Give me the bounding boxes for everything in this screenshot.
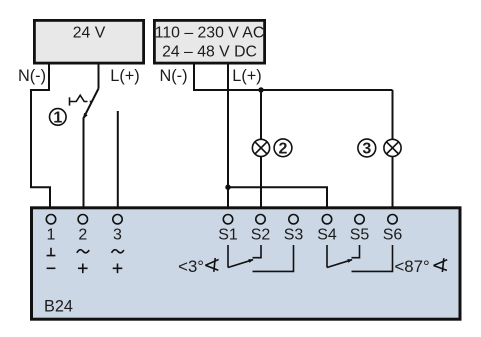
svg-text:S1: S1 bbox=[218, 227, 238, 244]
svg-text:3: 3 bbox=[113, 227, 122, 244]
svg-text:1: 1 bbox=[53, 110, 62, 127]
svg-text:24 – 48 V DC: 24 – 48 V DC bbox=[162, 43, 257, 60]
svg-text:B24: B24 bbox=[44, 298, 73, 316]
svg-text:<3°: <3° bbox=[178, 257, 204, 276]
svg-text:L(+): L(+) bbox=[110, 67, 139, 85]
svg-text:S3: S3 bbox=[284, 227, 304, 244]
svg-text:N(-): N(-) bbox=[159, 67, 187, 85]
svg-text:N(-): N(-) bbox=[18, 67, 46, 85]
svg-text:110 – 230 V AC: 110 – 230 V AC bbox=[155, 25, 265, 42]
svg-text:2: 2 bbox=[279, 141, 288, 158]
svg-text:S2: S2 bbox=[251, 227, 271, 244]
svg-text:<87°: <87° bbox=[395, 257, 430, 276]
svg-text:2: 2 bbox=[78, 227, 87, 244]
svg-text:S5: S5 bbox=[350, 227, 370, 244]
svg-text:3: 3 bbox=[362, 141, 371, 158]
svg-text:1: 1 bbox=[47, 227, 56, 244]
svg-text:S6: S6 bbox=[383, 227, 403, 244]
svg-text:24 V: 24 V bbox=[73, 25, 106, 42]
svg-text:L(+): L(+) bbox=[232, 67, 261, 85]
svg-text:S4: S4 bbox=[317, 227, 337, 244]
